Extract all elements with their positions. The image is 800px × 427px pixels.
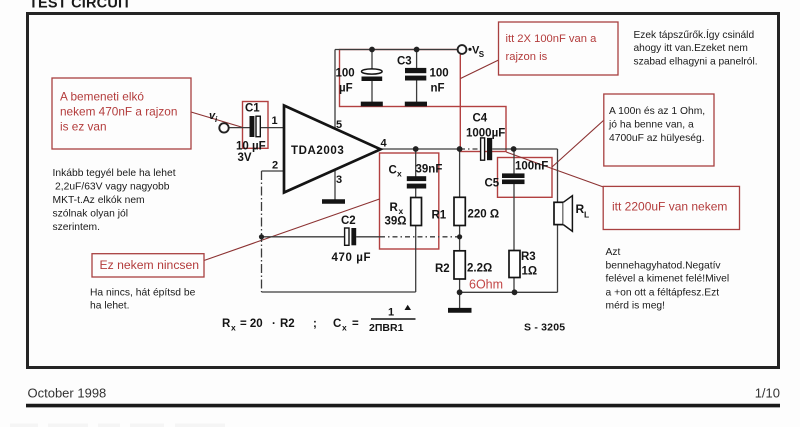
svg-text:Ha nincs, hát építsd be: Ha nincs, hát építsd be xyxy=(90,288,196,299)
svg-text:bennehagyhatod.Negatív: bennehagyhatod.Negatív xyxy=(606,260,722,271)
svg-text:= 20: = 20 xyxy=(240,318,263,330)
svg-text:x: x xyxy=(231,323,236,333)
svg-text:felével a kimenet felé!Mivel: felével a kimenet felé!Mivel xyxy=(606,274,730,285)
svg-text:1000µF: 1000µF xyxy=(466,128,505,140)
svg-text:ha lehet.: ha lehet. xyxy=(90,301,130,312)
svg-text:220 Ω: 220 Ω xyxy=(468,209,500,221)
svg-text:is ez van: is ez van xyxy=(60,120,107,134)
svg-text:=: = xyxy=(352,318,359,330)
svg-text:L: L xyxy=(584,210,589,220)
svg-text:4700uF az hülyeség.: 4700uF az hülyeség. xyxy=(609,133,705,144)
svg-text:3V: 3V xyxy=(238,152,252,164)
svg-text:5: 5 xyxy=(336,119,342,131)
svg-text:C1: C1 xyxy=(245,103,260,115)
svg-text:C: C xyxy=(333,318,341,330)
svg-text:x: x xyxy=(399,206,404,216)
svg-text:nekem 470nF a rajzon: nekem 470nF a rajzon xyxy=(60,105,177,119)
svg-text:·: · xyxy=(272,318,276,330)
svg-text:R1: R1 xyxy=(432,210,447,222)
svg-text:S - 3205: S - 3205 xyxy=(524,322,565,334)
svg-text:µF: µF xyxy=(339,83,353,95)
svg-text:szerintem.: szerintem. xyxy=(53,222,101,233)
svg-text:4: 4 xyxy=(381,138,388,150)
svg-text:R2: R2 xyxy=(280,318,295,330)
svg-text:2.2Ω: 2.2Ω xyxy=(467,263,492,275)
svg-text:itt 2200uF van nekem: itt 2200uF van nekem xyxy=(612,200,727,214)
svg-text:ahogy itt van.Ezeket nem: ahogy itt van.Ezeket nem xyxy=(634,43,748,54)
svg-text:1: 1 xyxy=(272,115,278,127)
svg-text:A 100n és az 1 Ohm,: A 100n és az 1 Ohm, xyxy=(609,106,705,117)
svg-text:100nF: 100nF xyxy=(515,161,548,173)
svg-text:1: 1 xyxy=(388,307,394,319)
svg-text:C5: C5 xyxy=(485,178,500,190)
svg-text:C: C xyxy=(389,165,397,177)
svg-text:TEST CIRCUIT: TEST CIRCUIT xyxy=(29,0,131,12)
svg-text:39nF: 39nF xyxy=(416,164,443,176)
svg-text:x: x xyxy=(342,323,347,333)
svg-text:a +on ott a féltápfesz.Ezt: a +on ott a féltápfesz.Ezt xyxy=(606,287,720,298)
svg-text:MKT-t.Az elkók nem: MKT-t.Az elkók nem xyxy=(53,195,145,206)
svg-text:x: x xyxy=(397,169,402,179)
svg-text:itt 2X 100nF van a: itt 2X 100nF van a xyxy=(506,33,598,45)
svg-text:C2: C2 xyxy=(341,215,356,227)
svg-text:mérd is meg!: mérd is meg! xyxy=(606,300,666,311)
svg-text:Ezek tápszűrők.Így csináld: Ezek tápszűrők.Így csináld xyxy=(634,28,755,41)
svg-text:TDA2003: TDA2003 xyxy=(291,145,344,157)
svg-text:1Ω: 1Ω xyxy=(522,266,538,278)
svg-text:R: R xyxy=(390,202,399,214)
svg-text:szólnak olyan jól: szólnak olyan jól xyxy=(53,209,129,220)
svg-text:100: 100 xyxy=(336,68,355,80)
svg-text:39Ω: 39Ω xyxy=(385,216,407,228)
svg-text:3: 3 xyxy=(336,174,342,186)
svg-text:10 µF: 10 µF xyxy=(236,141,266,153)
svg-text:October 1998: October 1998 xyxy=(28,386,107,401)
svg-text:rajzon is: rajzon is xyxy=(506,51,548,63)
svg-text:;: ; xyxy=(313,318,317,330)
svg-text:2,2uF/63V vagy nagyobb: 2,2uF/63V vagy nagyobb xyxy=(55,182,170,193)
svg-text:Ez nekem nincsen: Ez nekem nincsen xyxy=(100,258,200,272)
svg-text:C4: C4 xyxy=(473,113,488,125)
svg-text:6Ohm: 6Ohm xyxy=(469,278,503,292)
svg-text:R2: R2 xyxy=(435,263,450,275)
svg-text:2ΠBR1: 2ΠBR1 xyxy=(369,322,404,334)
svg-text:jó ha benne van, a: jó ha benne van, a xyxy=(608,120,694,131)
svg-text:A bemeneti elkó: A bemeneti elkó xyxy=(60,90,144,104)
svg-text:szabad elhagyni a panelról.: szabad elhagyni a panelról. xyxy=(634,57,758,68)
svg-text:C3: C3 xyxy=(397,56,412,68)
svg-text:R3: R3 xyxy=(521,251,536,263)
svg-text:2: 2 xyxy=(272,160,278,172)
svg-text:1/10: 1/10 xyxy=(755,386,780,401)
svg-text:470 µF: 470 µF xyxy=(332,252,372,264)
svg-text:S: S xyxy=(479,50,485,59)
svg-text:Azt: Azt xyxy=(606,247,621,258)
svg-text:R: R xyxy=(222,318,231,330)
svg-text:Inkább tegyél bele ha lehet: Inkább tegyél bele ha lehet xyxy=(53,168,176,179)
svg-text:nF: nF xyxy=(431,83,445,95)
svg-text:100: 100 xyxy=(430,68,449,80)
